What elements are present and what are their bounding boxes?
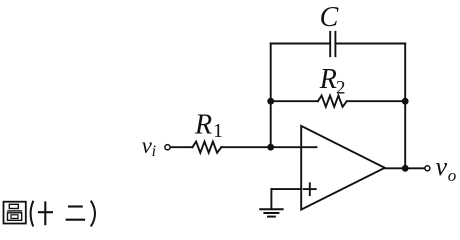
wire: R2 branch left segment [271, 100, 318, 102]
caption glyph 二 top stroke [68, 205, 83, 207]
wire: non-inverting input to ground stem corner [271, 188, 301, 190]
svg-text:R: R [319, 64, 337, 95]
ground symbol [260, 209, 282, 216]
op-amp plus sign at non-inverting input [304, 183, 316, 195]
caption glyph 十 vertical stroke [44, 201, 46, 225]
caption open parenthesis [31, 201, 34, 227]
caption glyph 圖 inner top mouth [9, 204, 18, 208]
resistor R1 zigzag [192, 142, 221, 153]
resistor R2 value label [319, 64, 346, 98]
caption glyph 圖 bottom box [8, 213, 22, 221]
svg-text:2: 2 [336, 77, 346, 98]
resistor R2 zigzag [318, 96, 347, 107]
node: junction dot at R2/C right corner [402, 98, 409, 105]
wire: left vertical from top corner down through R2 node to inverting node [270, 44, 272, 148]
wire: R2 branch right segment [347, 100, 405, 102]
wire: from R1 to op-amp inverting input (includes minus sign bar inside) [221, 146, 316, 148]
node: junction dot at R2/C left corner [267, 98, 274, 105]
resistor R1 value label [194, 109, 223, 142]
output terminal open circle [425, 166, 430, 171]
caption close parenthesis [91, 201, 95, 227]
input voltage label v_i [142, 133, 156, 160]
svg-text:v: v [436, 152, 448, 181]
caption glyph 圖 outer box [4, 202, 26, 224]
op-amp U1 triangle [301, 126, 385, 210]
capacitor C plates [330, 32, 335, 56]
node: junction dot at inverting input [267, 144, 274, 151]
caption glyph 十 horizontal stroke [38, 211, 53, 213]
svg-text:C: C [320, 2, 339, 33]
svg-text:1: 1 [213, 120, 223, 142]
figure caption 圖(十二) drawn as strokes [4, 201, 96, 227]
wire: op-amp output to output terminal [385, 167, 425, 169]
caption glyph 圖 bottom inner box [11, 215, 18, 219]
node: junction dot at output [402, 165, 409, 172]
output voltage label v_o [436, 152, 457, 185]
wire: ground stem vertical [270, 189, 272, 209]
wire: right vertical from top corner down through R2 node to output node [404, 44, 406, 169]
wire: input from terminal to resistor R1 [171, 146, 193, 148]
svg-text:i: i [152, 143, 156, 160]
svg-text:o: o [448, 166, 457, 185]
input terminal open circle [165, 145, 170, 150]
svg-text:R: R [194, 109, 212, 140]
wire: top-left horizontal from corner to capacitor left plate [271, 43, 330, 45]
caption glyph 圖 middle bar [7, 210, 22, 212]
caption glyph 二 bottom stroke [66, 219, 86, 221]
wire: top-right horizontal from capacitor right plate to corner [336, 43, 405, 45]
